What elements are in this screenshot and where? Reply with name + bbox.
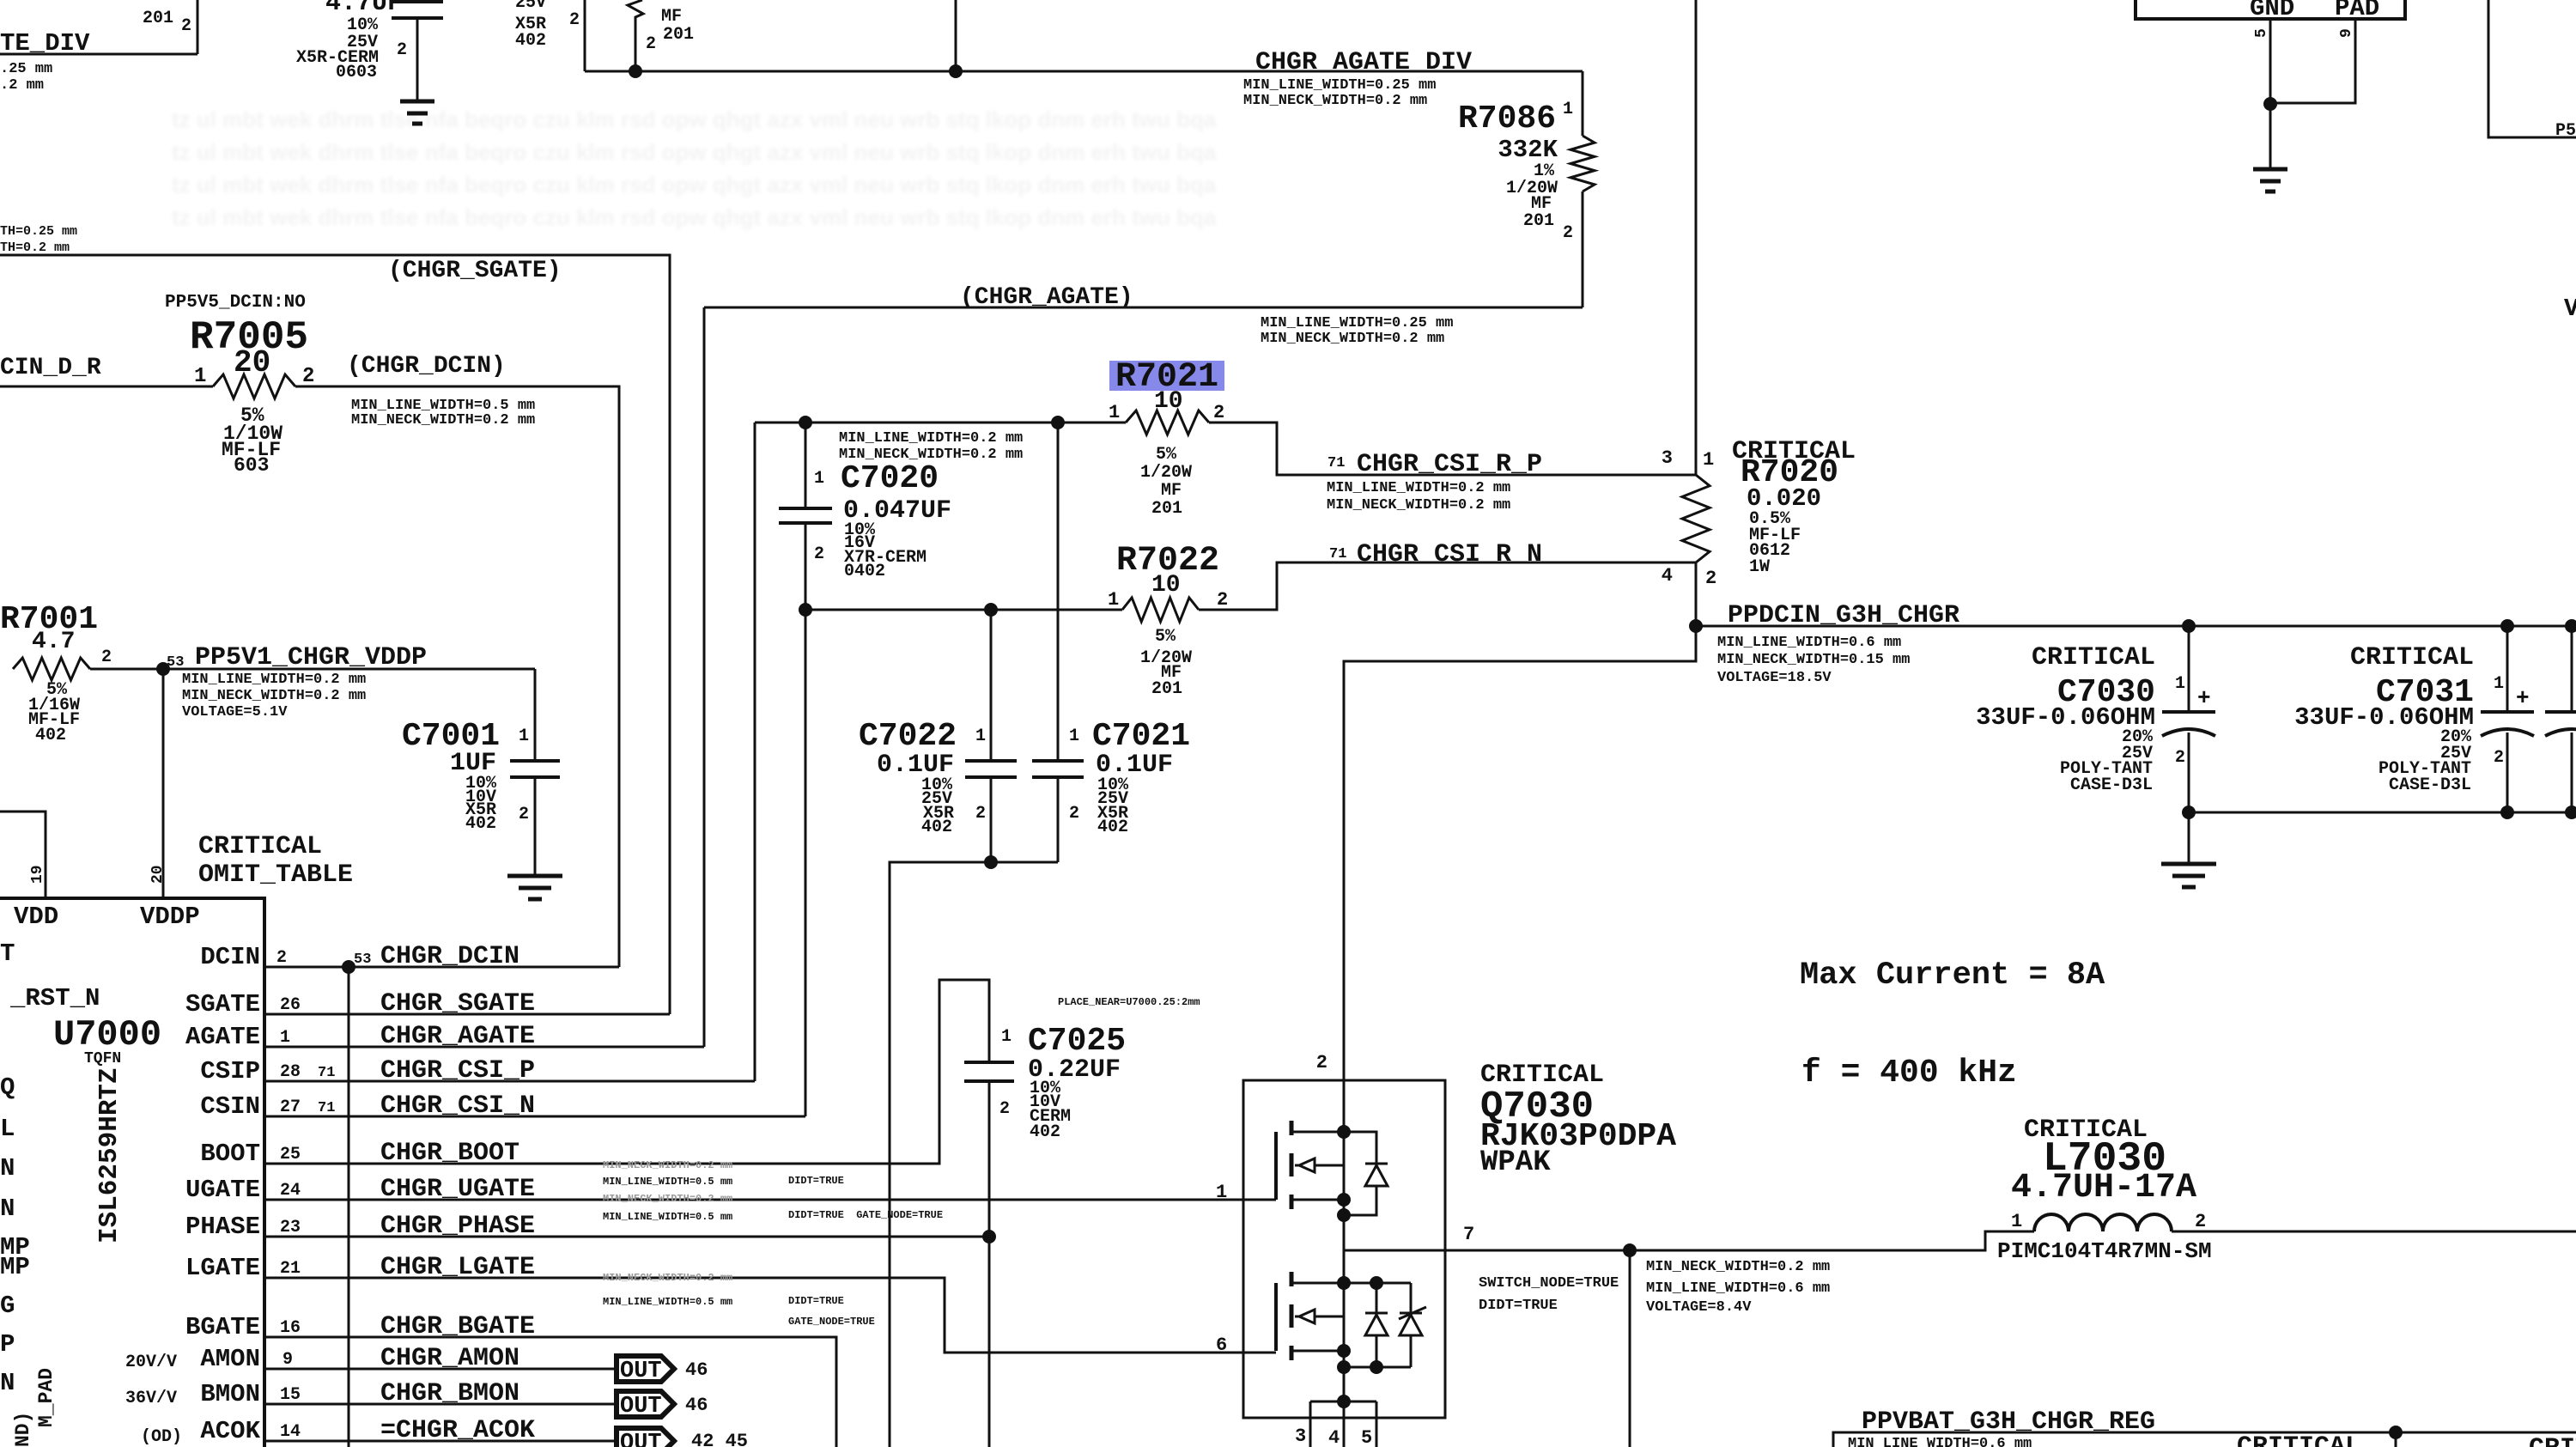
svg-text:GND: GND <box>2250 0 2294 22</box>
svg-text:UGATE: UGATE <box>185 1176 260 1204</box>
resistor R7084 partial zigzag (cut at top) <box>628 0 643 71</box>
svg-text:AMON: AMON <box>200 1345 260 1373</box>
wire R7022 pin2 step up to CSI_R_N <box>1199 562 1696 610</box>
svg-text:26: 26 <box>280 995 301 1015</box>
wire pin 5 <box>2269 19 2272 104</box>
ground below C7001 <box>507 876 562 899</box>
svg-text:ISL6259HRTZ: ISL6259HRTZ <box>94 1067 125 1243</box>
svg-text:1: 1 <box>2011 1211 2022 1232</box>
wire CHGR_LGATE row to Q7030 gate2 <box>264 1278 1276 1353</box>
svg-text:V: V <box>2564 295 2576 323</box>
resistor R7086 332K vertical <box>1582 71 1584 136</box>
svg-text:402: 402 <box>465 814 496 834</box>
svg-text:C7025: C7025 <box>1028 1023 1126 1060</box>
svg-text:46: 46 <box>685 1359 708 1381</box>
svg-text:5: 5 <box>1361 1427 1372 1447</box>
body diode upper <box>1344 1132 1376 1164</box>
wire CSI_N vertical <box>805 610 807 1116</box>
lower MOSFET of Q7030 <box>1274 1283 1278 1351</box>
wire CHGR_BMON row <box>264 1403 617 1406</box>
wire CHGR_CSI_P row <box>264 1080 755 1083</box>
ground below C7030 <box>2161 864 2216 887</box>
svg-text:1: 1 <box>280 1028 290 1048</box>
svg-text:71: 71 <box>318 1100 335 1116</box>
svg-text:36V/V: 36V/V <box>125 1389 177 1408</box>
svg-text:25: 25 <box>280 1145 301 1164</box>
svg-text:1: 1 <box>814 469 824 489</box>
svg-text:3: 3 <box>1295 1426 1306 1447</box>
svg-text:DIDT=TRUE: DIDT=TRUE <box>788 1175 844 1187</box>
svg-text:N: N <box>0 1195 15 1223</box>
svg-text:Q: Q <box>0 1073 15 1102</box>
svg-text:C7022: C7022 <box>859 718 957 755</box>
svg-text:DCIN: DCIN <box>200 943 260 971</box>
wire switch node pin 7 <box>1344 1249 1630 1252</box>
svg-text:_RST_N: _RST_N <box>9 984 100 1012</box>
svg-text:15: 15 <box>280 1385 301 1405</box>
svg-text:21: 21 <box>280 1259 301 1279</box>
svg-text:201: 201 <box>1523 211 1554 231</box>
wire CHGR_BOOT row to C7025 <box>264 980 989 1164</box>
svg-text:1: 1 <box>2175 674 2185 694</box>
wire below R7020 <box>1695 562 1698 661</box>
svg-text:PLACE_NEAR=U7000.25:2mm: PLACE_NEAR=U7000.25:2mm <box>1058 996 1200 1008</box>
svg-text:9: 9 <box>283 1350 293 1370</box>
svg-text:201: 201 <box>143 9 173 28</box>
ground below C7000 <box>400 101 434 124</box>
wire Q7030 internal vertical <box>1343 1132 1346 1401</box>
svg-text:PAD: PAD <box>2335 0 2379 22</box>
junction dot CSI_N <box>799 603 812 617</box>
svg-text:1: 1 <box>975 727 986 746</box>
svg-text:MIN_NECK_WIDTH=0.2 mm: MIN_NECK_WIDTH=0.2 mm <box>603 1159 732 1171</box>
svg-text:201: 201 <box>1151 499 1182 519</box>
wire CSI_P vertical <box>754 423 756 1081</box>
svg-text:2: 2 <box>1316 1052 1327 1073</box>
svg-text:MIN_LINE_WIDTH=0.2 mm: MIN_LINE_WIDTH=0.2 mm <box>182 672 366 688</box>
OUT flag ACOK <box>617 1428 674 1447</box>
svg-text:2: 2 <box>975 804 986 824</box>
svg-text:.25 mm: .25 mm <box>0 61 52 77</box>
junction dot <box>2389 1426 2403 1439</box>
svg-text:28: 28 <box>280 1062 301 1082</box>
svg-text:C7020: C7020 <box>841 460 939 497</box>
svg-text:PPVBAT_G3H_CHGR_REG: PPVBAT_G3H_CHGR_REG <box>1862 1407 2155 1437</box>
svg-text:VOLTAGE=18.5V: VOLTAGE=18.5V <box>1717 670 1832 686</box>
svg-text:20: 20 <box>149 865 167 884</box>
svg-text:2: 2 <box>2195 1211 2206 1232</box>
svg-text:1W: 1W <box>1749 557 1770 577</box>
capacitor C7032 partial at right edge <box>2571 626 2573 710</box>
svg-text:PIMC104T4R7MN-SM: PIMC104T4R7MN-SM <box>1997 1238 2212 1264</box>
wire vertical from top <box>955 0 957 71</box>
svg-text:5%: 5% <box>1156 445 1177 465</box>
wire to ground <box>2269 104 2272 169</box>
capacitor C7020 plates <box>779 508 832 523</box>
svg-text:VOLTAGE=8.4V: VOLTAGE=8.4V <box>1646 1299 1752 1316</box>
svg-text:53: 53 <box>354 951 371 968</box>
svg-text:1: 1 <box>1001 1027 1012 1047</box>
svg-text:2: 2 <box>569 10 580 30</box>
svg-text:14: 14 <box>280 1422 301 1442</box>
svg-text:MIN_NECK_WIDTH=0.2 mm: MIN_NECK_WIDTH=0.2 mm <box>1243 93 1427 109</box>
svg-text:GATE_NODE=TRUE: GATE_NODE=TRUE <box>788 1316 875 1328</box>
ground below GND pin <box>2253 169 2287 192</box>
svg-text:2: 2 <box>1213 402 1224 423</box>
svg-text:6: 6 <box>1216 1335 1227 1356</box>
svg-text:2: 2 <box>1705 568 1716 589</box>
svg-text:MIN_LINE_WIDTH=0.6 mm: MIN_LINE_WIDTH=0.6 mm <box>1646 1280 1830 1297</box>
svg-text:2: 2 <box>1217 589 1228 611</box>
svg-text:DIDT=TRUE: DIDT=TRUE <box>788 1295 844 1307</box>
junction dot C7022 pin1 <box>984 603 998 617</box>
svg-text:201: 201 <box>1151 679 1182 699</box>
capacitor C7021 0.1UF <box>1057 423 1060 759</box>
svg-text:MIN_LINE_WIDTH=0.2 mm: MIN_LINE_WIDTH=0.2 mm <box>1327 480 1510 496</box>
svg-text:tz ul mbt wek dhrm tlse nfa be: tz ul mbt wek dhrm tlse nfa beqro czu kl… <box>172 172 1217 198</box>
junction dot <box>629 64 642 78</box>
wire CHGR_AGATE vertical <box>703 307 706 1047</box>
svg-text:CHGR_CSI_R_N: CHGR_CSI_R_N <box>1357 540 1542 569</box>
OUT flag BMON <box>617 1391 674 1417</box>
IC box GND PAD (cut at top) <box>2136 0 2405 19</box>
svg-text:N: N <box>0 1154 15 1183</box>
svg-text:CRITICAL: CRITICAL <box>2237 1432 2360 1447</box>
svg-text:10: 10 <box>1151 572 1181 599</box>
svg-text:4: 4 <box>1662 565 1673 587</box>
highlight box for R7021 <box>1109 361 1224 391</box>
svg-text:CRITICAL: CRITICAL <box>2350 643 2474 672</box>
svg-text:CSIN: CSIN <box>200 1092 260 1121</box>
svg-text:C7021: C7021 <box>1092 718 1190 755</box>
svg-text:OMIT_TABLE: OMIT_TABLE <box>198 860 353 890</box>
svg-text:MIN_LINE_WIDTH=0.6 mm: MIN_LINE_WIDTH=0.6 mm <box>1717 635 1901 651</box>
svg-text:MP: MP <box>0 1253 30 1281</box>
svg-text:402: 402 <box>515 31 546 51</box>
svg-text:PHASE: PHASE <box>185 1213 260 1241</box>
wire to ground <box>2188 812 2190 864</box>
svg-text:MIN_NECK_WIDTH=0.15 mm: MIN_NECK_WIDTH=0.15 mm <box>1717 652 1910 668</box>
wire CHGR_ACOK row <box>264 1440 617 1443</box>
svg-text:CSIP: CSIP <box>200 1057 260 1085</box>
svg-text:0603: 0603 <box>336 63 377 82</box>
svg-text:(CHGR_SGATE): (CHGR_SGATE) <box>388 258 562 284</box>
svg-text:MIN_NECK_WIDTH=0.2 mm: MIN_NECK_WIDTH=0.2 mm <box>603 1272 732 1284</box>
wire CHGR_UGATE row to Q7030 gate1 <box>264 1199 1276 1201</box>
svg-text:402: 402 <box>1030 1122 1060 1142</box>
junction dot C7020 pin1 <box>799 416 812 429</box>
svg-text:2: 2 <box>181 16 191 36</box>
svg-text:1: 1 <box>2494 674 2504 694</box>
wire down-left to Q7030 drain <box>1344 626 1696 1132</box>
svg-text:Max Current = 8A: Max Current = 8A <box>1800 958 2105 994</box>
svg-text:AGATE: AGATE <box>185 1023 260 1051</box>
svg-text:+: + <box>2197 685 2211 711</box>
net stub box CHGR_SGATE_DIV (top-left, cut) <box>0 53 197 56</box>
svg-text:SWITCH_NODE=TRUE: SWITCH_NODE=TRUE <box>1479 1275 1619 1292</box>
svg-text:2: 2 <box>2494 748 2504 768</box>
svg-text:MIN_NECK_WIDTH=0.2 mm: MIN_NECK_WIDTH=0.2 mm <box>1261 331 1444 347</box>
svg-text:T: T <box>0 939 15 968</box>
svg-text:2: 2 <box>1563 223 1573 243</box>
svg-text:2: 2 <box>814 544 824 564</box>
svg-text:BOOT: BOOT <box>200 1140 260 1168</box>
wire cap to gnd <box>416 18 419 101</box>
svg-text:+: + <box>2516 685 2530 711</box>
svg-text:42 45: 42 45 <box>691 1431 748 1447</box>
junction dot PHASE <box>982 1230 996 1243</box>
svg-text:2: 2 <box>1069 804 1079 824</box>
resistor R7022 zigzag <box>1122 598 1199 622</box>
capacitor C7031 33UF POLY-TANT <box>2506 626 2509 710</box>
svg-text:f = 400 kHz: f = 400 kHz <box>1801 1055 2017 1091</box>
junction dot DCIN <box>342 960 355 974</box>
wire R7021 pin2 step down to CSI_R_P <box>1209 423 1696 475</box>
svg-text:MF: MF <box>1161 481 1182 501</box>
wire pin 9 <box>2270 19 2355 103</box>
svg-text:CHGR_CSI_R_P: CHGR_CSI_R_P <box>1357 450 1542 479</box>
resistor R7021 zigzag <box>1126 410 1209 435</box>
wire into R7005 pin1 <box>0 386 213 388</box>
svg-text:3: 3 <box>1662 447 1673 469</box>
svg-text:R7086: R7086 <box>1458 100 1556 137</box>
svg-text:U7000: U7000 <box>53 1014 161 1055</box>
svg-text:(CHGR_AGATE): (CHGR_AGATE) <box>960 284 1133 311</box>
wire CHGR_AGATE row <box>264 1046 704 1049</box>
wire bottom bus of C7030/C7031 <box>2189 812 2576 814</box>
svg-text:BMON: BMON <box>200 1380 260 1408</box>
svg-text:1: 1 <box>1108 589 1119 611</box>
svg-text:23: 23 <box>280 1218 301 1237</box>
capacitor C7021 plates <box>1032 761 1084 777</box>
wire down to C7001 <box>534 669 537 759</box>
wire to right edge <box>2172 1231 2576 1233</box>
svg-text:2: 2 <box>101 648 112 667</box>
svg-text:71: 71 <box>318 1065 335 1081</box>
svg-text:402: 402 <box>921 818 952 837</box>
svg-text:25V: 25V <box>515 0 546 13</box>
wire switch node drop <box>1629 1250 1631 1447</box>
OUT flag AMON <box>617 1356 674 1382</box>
wire drop <box>2395 1432 2397 1447</box>
svg-text:71: 71 <box>1329 546 1346 562</box>
svg-text:MIN_NECK_WIDTH=0.2 mm: MIN_NECK_WIDTH=0.2 mm <box>1646 1259 1830 1275</box>
svg-text:1: 1 <box>1703 449 1714 471</box>
svg-text:CRITICAL: CRITICAL <box>198 832 322 861</box>
capacitor C7022 0.1UF <box>990 610 993 759</box>
svg-text:PP5V5_DCIN:NO: PP5V5_DCIN:NO <box>165 293 306 313</box>
svg-text:1: 1 <box>1216 1182 1227 1203</box>
svg-text:TH=0.25 mm: TH=0.25 mm <box>0 224 77 239</box>
svg-text:VOLTAGE=5.1V: VOLTAGE=5.1V <box>182 704 288 720</box>
svg-text:0402: 0402 <box>844 562 885 581</box>
svg-text:4.7UH-17A: 4.7UH-17A <box>2011 1169 2196 1207</box>
svg-text:402: 402 <box>35 726 66 745</box>
capacitor C7022 plates <box>965 761 1017 777</box>
svg-text:7: 7 <box>1463 1224 1474 1245</box>
svg-text:27: 27 <box>280 1097 301 1117</box>
svg-text:MIN_LINE_WIDTH=0.6 mm: MIN_LINE_WIDTH=0.6 mm <box>1848 1436 2032 1447</box>
capacitor C7020 0.047UF <box>805 423 807 507</box>
svg-text:PP5V1_CHGR_VDDP: PP5V1_CHGR_VDDP <box>195 643 427 672</box>
svg-text:402: 402 <box>1097 818 1128 837</box>
IC U7000 ISL6259HRTZ box <box>0 898 264 1447</box>
svg-text:71: 71 <box>1327 455 1345 471</box>
svg-text:20V/V: 20V/V <box>125 1353 177 1372</box>
svg-text:TQFN: TQFN <box>84 1050 121 1067</box>
svg-text:1: 1 <box>1109 402 1120 423</box>
svg-text:P5: P5 <box>2555 121 2576 141</box>
wire CHGR_BGATE row drop <box>264 1337 836 1447</box>
svg-text:16: 16 <box>280 1318 301 1338</box>
svg-text:CASE-D3L: CASE-D3L <box>2070 775 2153 795</box>
junction dot <box>984 855 998 869</box>
svg-text:2: 2 <box>276 948 287 968</box>
svg-text:201: 201 <box>663 25 694 45</box>
svg-text:tz ul mbt wek dhrm tlse nfa be: tz ul mbt wek dhrm tlse nfa beqro czu kl… <box>172 139 1217 165</box>
svg-text:2: 2 <box>519 805 529 824</box>
svg-text:9: 9 <box>2338 28 2355 38</box>
svg-text:19: 19 <box>29 865 46 884</box>
svg-text:2: 2 <box>2175 748 2185 768</box>
svg-text:CIN_D_R: CIN_D_R <box>0 355 101 381</box>
svg-text:VDD: VDD <box>14 903 58 931</box>
svg-text:ND): ND) <box>12 1412 34 1447</box>
svg-text:TH=0.2 mm: TH=0.2 mm <box>0 240 70 255</box>
svg-text:46: 46 <box>685 1395 708 1416</box>
svg-text:MF: MF <box>661 7 682 27</box>
wire CHGR_PHASE row <box>264 1236 989 1238</box>
svg-text:1: 1 <box>1563 100 1573 119</box>
svg-text:G: G <box>0 1292 15 1320</box>
svg-text:5%: 5% <box>1155 627 1176 647</box>
svg-text:603: 603 <box>234 454 269 477</box>
wire C7025 pin2 down <box>988 1083 991 1237</box>
svg-text:BGATE: BGATE <box>185 1313 260 1341</box>
svg-text:DIDT=TRUE GATE_NODE=TRUE: DIDT=TRUE GATE_NODE=TRUE <box>788 1209 943 1221</box>
zener diode lower <box>1400 1313 1422 1335</box>
zener slash <box>1399 1307 1426 1319</box>
svg-text:CHGR_AGATE_DIV: CHGR_AGATE_DIV <box>1255 48 1472 77</box>
junction dot switch node <box>1623 1243 1637 1257</box>
svg-text:24: 24 <box>280 1181 301 1201</box>
svg-text:N: N <box>0 1369 15 1397</box>
resistor R7005 zigzag <box>213 374 295 398</box>
wire CHGR_AGATE_DIV horizontal y=83 <box>585 70 1583 73</box>
wire vertical into y83 bus <box>584 0 586 71</box>
wire CHGR_CSI_P row y=492 <box>755 422 1126 424</box>
capacitor C7030 33UF POLY-TANT <box>2188 626 2190 710</box>
svg-text:ACOK: ACOK <box>200 1417 260 1445</box>
svg-text:L: L <box>0 1115 15 1143</box>
svg-text:OUT: OUT <box>620 1431 662 1447</box>
junction dot <box>2263 97 2277 111</box>
capacitor C7001 plates <box>510 761 560 777</box>
junction dot C7021 pin1 <box>1051 416 1065 429</box>
wire VDD pin19 <box>0 812 46 898</box>
wire PPDCIN_G3H_CHGR <box>1696 625 2576 628</box>
junction dot PPDCIN <box>1689 619 1703 633</box>
junction dot pin20 <box>156 662 170 676</box>
resistor R7020 0.020 vertical <box>1695 0 1698 475</box>
wire DCIN drop to bottom <box>348 967 350 1447</box>
wire (CHGR_SGATE) y=297 <box>0 255 670 1014</box>
wire PP5V1_CHGR_VDDP <box>90 668 535 671</box>
svg-text:CRITICAL: CRITICAL <box>2529 1434 2576 1447</box>
svg-text:MIN_LINE_WIDTH=0.25 mm: MIN_LINE_WIDTH=0.25 mm <box>1261 315 1453 331</box>
svg-text:1: 1 <box>194 365 206 388</box>
wire top right corner net <box>2488 0 2576 137</box>
svg-text:2: 2 <box>302 365 314 388</box>
Q7030 pins 3 4 5 <box>1337 1395 1351 1408</box>
wire CHGR_CSI_N row <box>264 1116 805 1118</box>
svg-text:OUT: OUT <box>620 1394 662 1420</box>
wire CHGR_SGATE row <box>264 1013 670 1016</box>
svg-text:MIN_NECK_WIDTH=0.2 mm: MIN_NECK_WIDTH=0.2 mm <box>1327 497 1510 514</box>
svg-text:OUT: OUT <box>620 1359 662 1384</box>
resistor R7001 zigzag <box>13 658 90 680</box>
junction dot <box>949 64 963 78</box>
svg-text:DIDT=TRUE: DIDT=TRUE <box>1479 1298 1558 1314</box>
svg-text:LGATE: LGATE <box>185 1254 260 1282</box>
wire CHGR_DCIN row <box>264 966 619 969</box>
svg-text:1/20W: 1/20W <box>1140 463 1192 483</box>
wire CHGR_CSI_N row y=710 <box>805 609 1122 611</box>
wire (CHGR_DCIN) <box>295 386 619 967</box>
svg-text:PPDCIN_G3H_CHGR: PPDCIN_G3H_CHGR <box>1728 601 1959 630</box>
wire (CHGR_AGATE) y=358 <box>704 307 1583 309</box>
svg-text:MIN_LINE_WIDTH=0.5 mm: MIN_LINE_WIDTH=0.5 mm <box>603 1296 732 1308</box>
wire drop to bottom <box>988 1237 991 1447</box>
svg-text:1: 1 <box>519 727 529 746</box>
wire CHGR_AMON row <box>264 1368 617 1371</box>
svg-text:VDDP: VDDP <box>140 903 200 931</box>
body diode lower <box>1344 1282 1411 1285</box>
svg-text:MIN_LINE_WIDTH=0.5 mm: MIN_LINE_WIDTH=0.5 mm <box>603 1176 732 1188</box>
svg-text:4: 4 <box>1328 1427 1340 1447</box>
svg-text:(CHGR_DCIN): (CHGR_DCIN) <box>347 353 506 380</box>
svg-text:MIN_LINE_WIDTH=0.25 mm: MIN_LINE_WIDTH=0.25 mm <box>1243 77 1436 94</box>
svg-text:1: 1 <box>1069 727 1079 746</box>
svg-text:CRITICAL: CRITICAL <box>2032 643 2155 672</box>
wire C7021/C7022 ground bus <box>890 862 1058 1447</box>
upper MOSFET of Q7030 <box>1274 1132 1278 1200</box>
svg-text:2: 2 <box>397 40 407 60</box>
svg-text:tz ul mbt wek dhrm tlse nfa be: tz ul mbt wek dhrm tlse nfa beqro czu kl… <box>172 204 1217 230</box>
svg-text:P: P <box>0 1330 15 1359</box>
svg-text:(OD): (OD) <box>141 1427 182 1447</box>
wire PPVBAT_G3H_CHGR_REG <box>1833 1432 2576 1447</box>
svg-text:M_PAD: M_PAD <box>35 1368 58 1427</box>
svg-text:MIN_LINE_WIDTH=0.2 mm: MIN_LINE_WIDTH=0.2 mm <box>839 430 1023 447</box>
svg-text:2: 2 <box>646 34 656 54</box>
svg-text:MIN_NECK_WIDTH=0.2 mm: MIN_NECK_WIDTH=0.2 mm <box>603 1193 732 1205</box>
svg-text:TE_DIV: TE_DIV <box>0 29 90 58</box>
svg-text:.2 mm: .2 mm <box>0 77 44 94</box>
svg-text:tz ul mbt wek dhrm tlse nfa be: tz ul mbt wek dhrm tlse nfa beqro czu kl… <box>172 106 1217 132</box>
svg-text:MIN_NECK_WIDTH=0.2 mm: MIN_NECK_WIDTH=0.2 mm <box>182 688 366 704</box>
svg-text:5: 5 <box>2253 28 2270 38</box>
svg-text:WPAK: WPAK <box>1480 1146 1551 1179</box>
svg-text:MIN_LINE_WIDTH=0.5 mm: MIN_LINE_WIDTH=0.5 mm <box>603 1211 732 1223</box>
svg-text:SGATE: SGATE <box>185 990 260 1018</box>
svg-text:MIN_NECK_WIDTH=0.2 mm: MIN_NECK_WIDTH=0.2 mm <box>351 412 535 429</box>
svg-text:53: 53 <box>167 654 184 671</box>
svg-text:2: 2 <box>999 1099 1010 1119</box>
wire VDDP pin 20 drop <box>162 669 165 898</box>
svg-text:CASE-D3L: CASE-D3L <box>2389 775 2471 795</box>
wire C7001 to gnd <box>534 779 537 876</box>
